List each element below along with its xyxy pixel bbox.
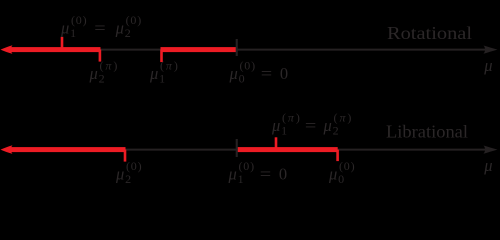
tick: red downward at mu2(0), x=125 [124, 150, 127, 162]
arrowhead: top axis left (red) [1, 45, 13, 54]
wire: dark axis segment between mu2(0) and mu1(0) ticks [124, 149, 238, 151]
wire: dark axis segment from mu0(0) tick to right arrowhead [337, 149, 486, 151]
tick: red downward at mu2(pi), x=100 [99, 50, 102, 62]
red segment: bottom axis, between mu1(0) and mu0(0) [237, 147, 338, 152]
tick: red upward at mu1(0)=mu2(0), x=62 [61, 37, 64, 50]
tick: red downward at mu0(0), x=337 [336, 150, 339, 162]
red segment: top axis, between mu1(pi) and mu0(0) [161, 47, 237, 52]
svg-text:μ: μ [483, 156, 492, 175]
arrowhead: top axis right (dark) [484, 46, 498, 54]
wire: dark axis segment from mu0(0) tick to right arrowhead [236, 49, 486, 51]
svg-text:Librational: Librational [386, 122, 468, 142]
wire: dark axis segment between mu2(pi) and mu1(pi) ticks [99, 49, 162, 51]
arrowhead: bottom axis left (red) [1, 145, 13, 154]
tick: red upward at mu1(pi)=mu2(pi), x=276 [275, 137, 278, 149]
tick: dark crossing at mu0(0)=0, x=236.7 [236, 39, 238, 56]
tick: dark crossing at mu1(0)=0, x=236.7 [236, 139, 238, 157]
svg-text:Rotational: Rotational [387, 23, 472, 43]
red segment: bottom axis, from left edge to mu2(0) [9, 147, 126, 152]
svg-text:μ: μ [483, 56, 492, 75]
red segment: top axis, from left edge to mu2(pi) [9, 47, 101, 52]
arrowhead: bottom axis right (dark) [484, 146, 498, 154]
tick: red downward at mu1(pi), x=161 [160, 50, 163, 63]
